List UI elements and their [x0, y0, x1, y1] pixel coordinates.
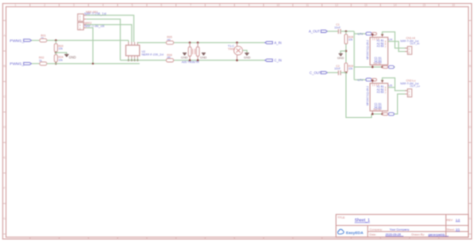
wire loop to connector pin1: [382, 78, 407, 91]
svg-text:10: 10: [277, 3, 281, 7]
svg-text:Drawn By:: Drawn By:: [412, 233, 426, 237]
pin text cluster bottom: [374, 56, 382, 64]
wire: [327, 30, 338, 32]
wire conn1 pin1 to U2 pin3: [86, 15, 134, 42]
wire: [327, 72, 338, 74]
svg-text:E: E: [3, 156, 5, 160]
svg-text:B: B: [3, 64, 5, 68]
connector CN2: [400, 79, 420, 97]
svg-text:A05 TR06/7R: A05 TR06/7R: [182, 60, 199, 64]
svg-text:OUT_Hi: OUT_Hi: [410, 41, 420, 45]
pin text cluster top: [377, 39, 385, 48]
resistor ellipse: [372, 78, 377, 81]
wire pins down to rail: [129, 58, 138, 60]
port A_IN: [265, 41, 282, 45]
pin numbers: [372, 39, 387, 66]
svg-text:15: 15: [423, 3, 427, 7]
blue box: [366, 32, 372, 35]
port A_OUT: [309, 30, 328, 34]
wire top: [354, 79, 372, 81]
wire A feed vertical: [353, 31, 355, 80]
wire loop to connector pin1: [382, 32, 407, 48]
svg-text:D: D: [3, 125, 5, 129]
svg-text:GND: GND: [69, 56, 77, 60]
port C_OUT: [310, 71, 328, 75]
svg-text:13: 13: [364, 3, 368, 7]
op IC U2: [126, 45, 140, 56]
resistor ellipse: [372, 32, 377, 35]
blue box bottom: [389, 113, 395, 116]
wire conn1 pin2 down left of U2: [86, 19, 120, 60]
svg-text:Sheet_1: Sheet_1: [355, 218, 371, 223]
pin numbers: [372, 85, 387, 112]
wire crystal to gnd: [243, 50, 247, 53]
svg-text:Company:: Company:: [370, 227, 383, 231]
svg-text:5 6 7 8: 5 6 7 8: [373, 109, 381, 111]
svg-text:10k: 10k: [348, 38, 353, 42]
svg-text:E: E: [469, 156, 471, 160]
svg-text:OUT_Lo: OUT_Lo: [410, 84, 420, 88]
svg-text:10nF: 10nF: [334, 67, 341, 71]
wire ic right to connector pin2: [388, 41, 408, 51]
wire conn2 pin1 to U2 pin2: [86, 25, 131, 42]
svg-text:16: 16: [452, 3, 456, 7]
wire to gnd: [56, 52, 67, 54]
wire ic right joins loop: [388, 86, 395, 88]
wire rail PWM1_C: [47, 63, 140, 65]
resistor ellipse bottom: [383, 113, 388, 116]
svg-text:12: 12: [335, 3, 339, 7]
wire bottom line C: [120, 59, 265, 61]
svg-text:GND: GND: [337, 56, 345, 60]
svg-text:1.0: 1.0: [456, 218, 461, 222]
pins bottom: [372, 65, 374, 67]
svg-text:1 2 3 4: 1 2 3 4: [372, 85, 380, 87]
node junction: [92, 63, 94, 65]
resistor R4: [55, 53, 57, 55]
svg-text:10k: 10k: [58, 58, 63, 62]
ground: [337, 54, 345, 60]
svg-text:G: G: [469, 217, 471, 221]
node junction: [55, 39, 57, 41]
port C_IN: [265, 59, 282, 63]
node junction: [55, 52, 57, 54]
frame ticks: [29, 4, 31, 7]
svg-text:GND: GND: [200, 56, 208, 60]
svg-text:TRIM: TRIM: [228, 47, 236, 51]
svg-text:10k: 10k: [58, 47, 63, 51]
connector CN1: [400, 36, 419, 54]
svg-text:C: C: [3, 95, 5, 99]
svg-text:GND: GND: [244, 55, 252, 59]
resistor R9: [345, 63, 348, 72]
wire bottom to connector pin2: [372, 94, 406, 114]
svg-text:gamerpaddy: gamerpaddy: [428, 233, 445, 237]
svg-text:Your Company: Your Company: [390, 227, 410, 231]
ground right: [200, 53, 208, 60]
port PWM1_A: [10, 38, 32, 43]
svg-text:C_OUT: C_OUT: [310, 71, 322, 75]
resistor ellipse bottom: [383, 66, 388, 69]
port PWM1_C: [10, 61, 32, 66]
svg-text:MP1907GQ-28-2: MP1907GQ-28-2: [366, 39, 370, 59]
blue box bottom: [389, 66, 395, 69]
wire: [55, 40, 57, 43]
svg-text:GND: GND: [181, 56, 189, 60]
svg-text:G: G: [3, 217, 5, 221]
varistor pair RV1: [188, 42, 199, 62]
connector P1: [78, 10, 99, 22]
svg-text:C_IN: C_IN: [274, 59, 282, 63]
svg-text:Sheet:: Sheet:: [447, 227, 456, 231]
svg-text:A3 B3: A3 B3: [377, 90, 385, 94]
wire: [341, 72, 346, 74]
ground: [64, 54, 76, 59]
svg-text:NERF-F-236_2nl: NERF-F-236_2nl: [142, 53, 164, 57]
svg-text:TITLE:: TITLE:: [338, 216, 346, 220]
svg-text:1 2 3 4: 1 2 3 4: [372, 39, 380, 41]
wire bottom: [354, 66, 395, 68]
crystal Y1: [228, 42, 243, 62]
pin text cluster top: [377, 85, 385, 94]
wire: [47, 39, 129, 41]
wire top: [354, 33, 372, 35]
svg-text:10nF: 10nF: [334, 25, 341, 29]
node junction: [345, 50, 347, 52]
wire to mid node: [345, 44, 347, 63]
op IC U5: [370, 83, 388, 111]
resistor R1: [40, 39, 47, 42]
blue box: [366, 78, 372, 81]
wire PWM1_A to pin1: [128, 40, 130, 42]
svg-text:2020-09-28: 2020-09-28: [385, 233, 401, 237]
svg-text:14: 14: [393, 3, 397, 7]
wire: [32, 39, 40, 41]
svg-text:A_OUT: A_OUT: [309, 30, 320, 34]
svg-text:Date:: Date:: [370, 233, 377, 237]
svg-text:REV:: REV:: [447, 218, 454, 222]
resistor R3: [54, 44, 57, 52]
resistor R2: [40, 62, 47, 65]
wire top line A: [138, 41, 265, 44]
svg-text:10k: 10k: [348, 67, 353, 71]
node junction: [55, 63, 57, 65]
junction dots: [128, 59, 130, 61]
svg-text:D: D: [469, 125, 471, 129]
pins top: [372, 81, 374, 83]
resistor R8: [345, 31, 347, 34]
svg-text:F: F: [4, 186, 6, 190]
connector P2: [78, 21, 92, 30]
capacitor C1: [334, 23, 341, 34]
pin text cluster bottom: [374, 102, 382, 110]
EasyEDA logo: [338, 229, 364, 235]
op IC U4: [370, 37, 388, 65]
svg-text:-LTV: -LTV: [357, 78, 363, 82]
wire: [32, 63, 40, 65]
svg-text:C: C: [469, 95, 471, 99]
ground left: [181, 53, 189, 60]
svg-text:-LTV: -LTV: [357, 32, 363, 36]
svg-text:EasyEDA: EasyEDA: [346, 230, 363, 235]
node C junction: [345, 72, 347, 74]
svg-text:F: F: [469, 186, 471, 190]
node A junction: [345, 30, 347, 32]
ground: [244, 53, 252, 59]
wire: [341, 30, 355, 32]
capacitor C2: [334, 64, 341, 75]
pins top: [372, 35, 374, 37]
wire to gnd: [341, 51, 346, 54]
svg-text:11: 11: [306, 3, 309, 7]
svg-text:B: B: [469, 64, 471, 68]
wire conn2 pin2 down to rail: [86, 28, 93, 64]
pins: [129, 42, 138, 58]
svg-text:5 6 7 8: 5 6 7 8: [373, 63, 381, 65]
svg-text:A: A: [469, 34, 471, 38]
svg-text:A_IN: A_IN: [274, 41, 282, 45]
svg-text:A: A: [3, 34, 5, 38]
svg-text:1/1: 1/1: [456, 227, 461, 231]
svg-text:MP1907GQ-28-2: MP1907GQ-28-2: [366, 85, 370, 105]
wire C down leg: [346, 73, 372, 118]
pins bottom: [372, 111, 374, 114]
svg-text:A3 B3: A3 B3: [377, 44, 385, 48]
